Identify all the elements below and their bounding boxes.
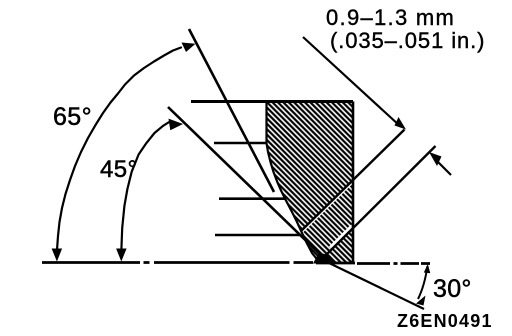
seat outline: left curve (267, 102, 324, 264)
seat band upper edge (301, 130, 405, 232)
label 65 deg (53, 103, 92, 132)
hatched valve-seat cross-section (267, 102, 354, 263)
label 0.9-1.3 mm (326, 5, 455, 31)
arrowhead of 30-degree arc, upper (424, 264, 431, 273)
arrowhead 45 arc at baseline (116, 249, 127, 262)
seat outline: right edge (352, 102, 355, 264)
tick line 2 (214, 142, 268, 145)
label (.035-.051 in.) (330, 28, 485, 54)
tick line 3 (219, 197, 285, 200)
label Z6EN0491 (397, 311, 493, 332)
65-degree line (189, 29, 274, 192)
30-degree arc (418, 266, 428, 299)
white margin under seat band upper edge (300, 182, 353, 234)
baseline (42, 263, 430, 264)
ink blob at seat tip junction (313, 253, 337, 264)
tick line 4 (215, 234, 300, 237)
label 45 deg (100, 156, 138, 184)
arrowhead of 30-degree arc, lower (416, 296, 426, 306)
arrowhead 65 arc at baseline (52, 249, 63, 262)
white margin above seat band lower edge (330, 226, 352, 248)
65-degree arc (57, 48, 181, 251)
dimension leader 1 (303, 37, 400, 126)
dimension leader 2 (437, 161, 451, 175)
30-degree line (328, 263, 424, 310)
arrowhead leader 1 (395, 117, 407, 130)
tick line 1 / seat top edge (191, 100, 353, 103)
seat band lower edge (320, 146, 436, 261)
45-degree arc (121, 122, 170, 253)
45-degree line (168, 107, 327, 261)
arrowhead leader 2 (429, 152, 442, 166)
label 30 deg (433, 275, 472, 304)
arrowhead 45 arc at top (169, 119, 184, 131)
arrowhead 65 arc at top (182, 43, 196, 53)
